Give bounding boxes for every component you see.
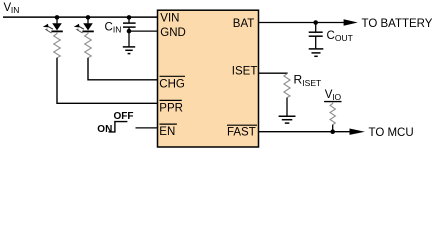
wire VIN rail: [3, 16, 158, 18]
resistor (PPR LED series): [54, 32, 61, 58]
wire EN pin: [136, 127, 158, 129]
net VIO label: [324, 89, 341, 102]
wire BAT pin to battery: [259, 22, 346, 24]
node junction dot (LED2 / VIN rail): [86, 15, 91, 20]
svg-text:VIN: VIN: [160, 13, 179, 25]
svg-text:ISET: ISET: [232, 65, 258, 77]
svg-text:C: C: [327, 30, 335, 42]
resistor RISET: [284, 72, 321, 97]
arrowhead TO BATTERY: [344, 19, 358, 25]
svg-text:IN: IN: [11, 5, 20, 15]
pin EN (active low): [159, 124, 177, 138]
wire GND pin: [129, 30, 158, 32]
svg-text:IN: IN: [113, 25, 122, 35]
LED (CHG indicator): [74, 23, 94, 33]
svg-text:EN: EN: [159, 126, 175, 138]
wire LED1 resistor to PPR pin: [57, 58, 158, 104]
wire FAST pin to MCU: [259, 131, 352, 133]
wire COUT top: [315, 23, 317, 32]
charger IC U1: [158, 10, 259, 147]
pin CHG (active low): [159, 76, 185, 90]
wire CIN top: [128, 17, 130, 22]
resistor (VIO pull-up): [330, 102, 335, 124]
wire LED1 anode: [56, 17, 58, 23]
wire COUT bottom to ground: [315, 36, 317, 48]
svg-text:PPR: PPR: [159, 102, 183, 114]
pin PPR (active low): [159, 100, 183, 114]
arrowhead TO MCU: [350, 129, 365, 135]
svg-text:OUT: OUT: [335, 33, 353, 43]
svg-text:IO: IO: [332, 92, 341, 102]
ground (COUT): [309, 49, 324, 56]
logic-level annotation OFF/ON at EN: [97, 111, 133, 135]
ground (CIN): [123, 47, 135, 54]
net VIN label: [4, 2, 20, 15]
svg-text:CHG: CHG: [159, 78, 185, 90]
node junction dot (LED1 / VIN rail): [55, 15, 60, 20]
wire ISET pin: [259, 72, 288, 75]
wire LED2 anode: [87, 17, 89, 23]
wire VIO resistor to FAST: [332, 125, 334, 132]
svg-text:ON: ON: [97, 124, 112, 135]
svg-text:C: C: [105, 22, 113, 34]
capacitor CIN: [105, 22, 136, 35]
wire CIN bottom to ground: [128, 27, 130, 46]
wire RISET to ground: [286, 98, 288, 116]
svg-text:GND: GND: [160, 27, 186, 39]
svg-text:OFF: OFF: [114, 111, 134, 122]
svg-text:TO BATTERY: TO BATTERY: [362, 18, 433, 30]
svg-text:FAST: FAST: [227, 127, 256, 139]
LED (PPR indicator): [43, 23, 63, 33]
ground (RISET): [279, 116, 296, 123]
svg-text:BAT: BAT: [233, 18, 255, 30]
resistor (CHG LED series): [85, 32, 92, 58]
node junction dot (CIN / VIN rail): [127, 15, 132, 20]
node junction dot (CIN / GND pin): [127, 29, 132, 34]
capacitor COUT: [309, 30, 353, 43]
svg-text:TO MCU: TO MCU: [369, 127, 414, 139]
svg-text:R: R: [294, 72, 303, 86]
node junction dot (FAST / VIO pull-up): [330, 129, 335, 134]
node junction dot (BAT / COUT): [313, 20, 318, 25]
svg-text:ISET: ISET: [302, 78, 321, 88]
wire LED2 resistor to CHG pin: [88, 58, 158, 80]
pin FAST (active low): [227, 125, 257, 138]
